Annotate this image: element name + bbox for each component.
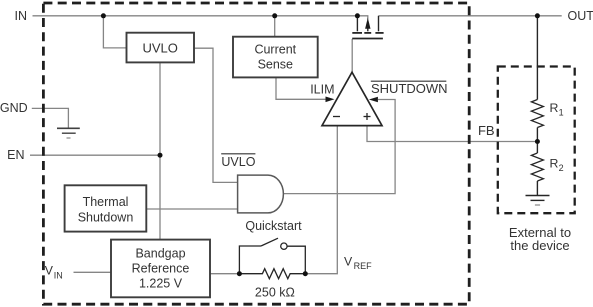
- svg-text:Quickstart: Quickstart: [245, 219, 302, 233]
- svg-text:the device: the device: [510, 238, 569, 253]
- svg-text:SHUTDOWN: SHUTDOWN: [371, 81, 448, 96]
- svg-text:Bandgap: Bandgap: [135, 247, 185, 261]
- svg-text:IN: IN: [54, 270, 63, 280]
- svg-text:Reference: Reference: [132, 262, 190, 276]
- svg-text:Sense: Sense: [258, 57, 293, 71]
- svg-text:2: 2: [559, 163, 564, 173]
- svg-text:V: V: [45, 264, 54, 278]
- svg-text:UVLO: UVLO: [221, 155, 255, 169]
- svg-text:REF: REF: [354, 261, 373, 271]
- svg-text:R: R: [550, 101, 559, 115]
- svg-text:UVLO: UVLO: [142, 40, 177, 55]
- svg-text:1: 1: [559, 108, 564, 118]
- svg-text:OUT: OUT: [568, 9, 593, 23]
- svg-text:V: V: [344, 254, 353, 268]
- svg-text:R: R: [550, 156, 559, 170]
- svg-text:Thermal: Thermal: [83, 195, 129, 209]
- svg-text:ILIM: ILIM: [310, 83, 334, 97]
- svg-text:Shutdown: Shutdown: [78, 211, 134, 225]
- svg-text:FB: FB: [478, 123, 495, 138]
- svg-text:EN: EN: [7, 148, 24, 162]
- svg-text:1.225 V: 1.225 V: [139, 277, 183, 291]
- svg-text:Current: Current: [254, 42, 296, 56]
- svg-text:IN: IN: [15, 9, 28, 23]
- svg-text:250 kΩ: 250 kΩ: [255, 286, 295, 300]
- svg-text:GND: GND: [0, 101, 28, 115]
